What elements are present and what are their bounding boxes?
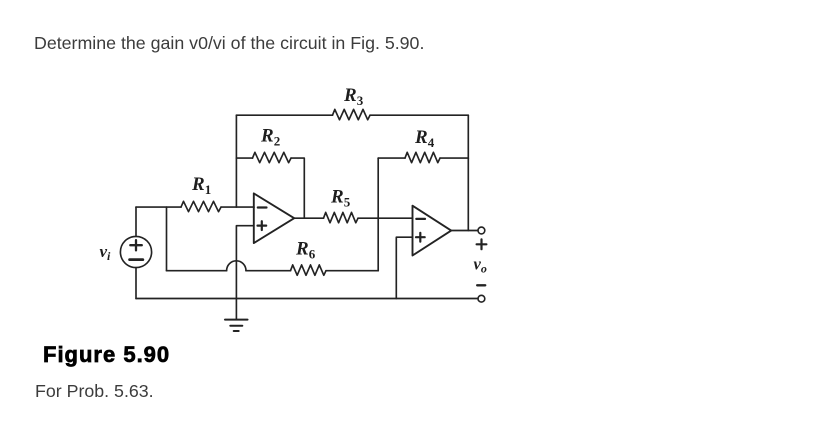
resistor R4 [405, 152, 440, 162]
wire R2 left lead [236, 157, 252, 159]
resistor R5 [324, 212, 359, 222]
wire R4 right lead to right rail [440, 157, 468, 159]
svg-text:R1: R1 [191, 174, 211, 197]
wire vi top lead [135, 207, 137, 236]
wire hop to R6 [246, 270, 291, 272]
svg-text:R4: R4 [414, 127, 435, 150]
wire U1 noninverting input to ground rail [236, 226, 253, 320]
wire R1 to op-amp U1 inverting input [221, 206, 254, 208]
op-amp U1 [254, 193, 294, 243]
svg-text:vi: vi [100, 242, 112, 263]
svg-text:R3: R3 [343, 85, 364, 108]
resistor R3 [333, 109, 371, 119]
wire R6 right lead to node D [326, 270, 378, 272]
op-amp U2 [413, 206, 452, 256]
node D rail wire R4-left down to R6-right [377, 158, 379, 271]
wire U1 output to R5 [294, 217, 323, 219]
label minus output [477, 284, 485, 286]
wire R2 right lead down to U1 output [291, 158, 304, 218]
wire R5 to op-amp U2 inverting input [358, 217, 413, 219]
svg-text:R5: R5 [330, 187, 351, 210]
wire vi bottom lead [135, 268, 137, 299]
resistor R1 [181, 201, 221, 211]
terminal output bottom [478, 295, 485, 302]
svg-text:R6: R6 [295, 239, 316, 262]
resistor R2 [253, 152, 292, 162]
label + output [477, 239, 487, 249]
wire left rail node B up to R3 [235, 115, 237, 207]
wire input row to R1 [136, 206, 181, 208]
voltage source vi [120, 236, 151, 267]
wire R6 left lead from node A [167, 270, 227, 272]
wire U2 noninverting input down to bottom rail [396, 237, 412, 298]
resistor R6 [291, 265, 327, 275]
wire U2 output to terminal [451, 230, 478, 232]
svg-text:vo: vo [474, 255, 487, 276]
svg-text:R2: R2 [260, 126, 280, 149]
wire R4 left lead [378, 157, 405, 159]
node A branch wire down to R6 [166, 207, 168, 271]
terminal output top [478, 227, 485, 234]
wire bottom rail [136, 298, 478, 300]
wire crossover hop over ground wire [227, 261, 246, 271]
wire R3 right to right rail [370, 114, 468, 116]
wire top row to R3 [236, 114, 332, 116]
wire right rail down to U2 output [467, 115, 469, 230]
ground [225, 320, 248, 331]
